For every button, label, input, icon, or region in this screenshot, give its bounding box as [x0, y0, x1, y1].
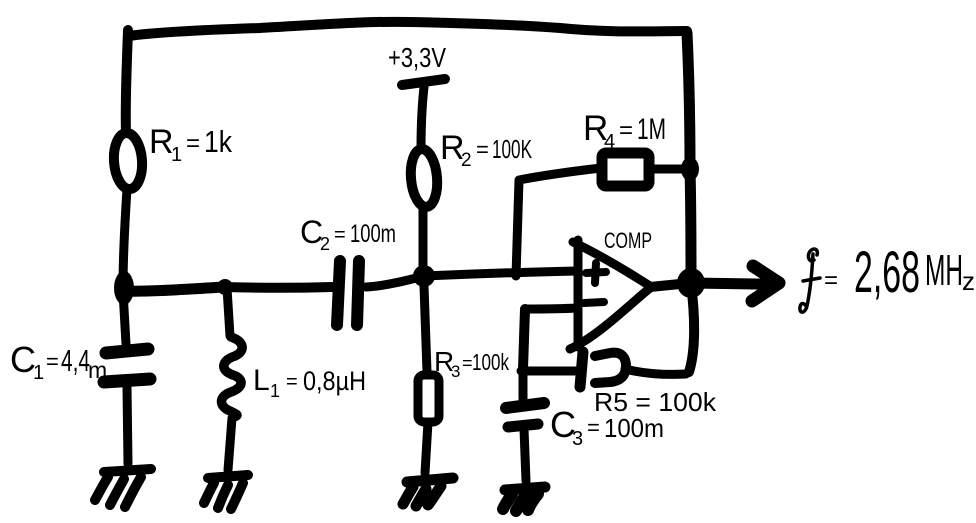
wire L1 bottom to ground: [228, 418, 232, 470]
label R2 value: [440, 129, 532, 171]
node D (output node): [677, 268, 705, 298]
resistor R1: [112, 132, 144, 190]
ground (C1): [95, 469, 151, 507]
wire inverting net vertical down: [523, 309, 525, 369]
node B (comparator + input net junction): [413, 265, 435, 287]
pin - (inverting input mark): [584, 302, 604, 303]
svg-text:COMP: COMP: [604, 228, 652, 253]
resistor R4: [602, 153, 649, 186]
wire inverting net to R5: [521, 367, 578, 376]
label L1 value: [253, 364, 366, 401]
svg-text:m: m: [88, 357, 107, 383]
wire left vertical lower (R1 to node A): [123, 189, 127, 288]
op-amp U1 comparator triangle: [570, 240, 650, 349]
svg-text:=: =: [186, 130, 200, 157]
wire node B to comparator plus input: [424, 271, 576, 276]
svg-text:1M: 1M: [637, 113, 666, 146]
wire right vertical (top corner to node C): [687, 33, 690, 168]
capacitor C3: [506, 403, 544, 427]
svg-text:=: =: [619, 117, 633, 144]
node A (tank node junction): [114, 271, 134, 305]
wire L1 junction to C2 left plate: [225, 282, 332, 293]
wire L1 top (junction down): [227, 288, 230, 336]
svg-text:1: 1: [270, 381, 280, 401]
svg-text:1k: 1k: [204, 124, 232, 159]
ground (L1): [204, 475, 248, 509]
pin + (non-inverting input mark): [586, 263, 606, 283]
wire C3 top: [519, 371, 528, 399]
wire comparator output to node D: [650, 284, 680, 287]
capacitor C2: [337, 261, 359, 325]
label COMP: [604, 228, 652, 253]
svg-text:100K: 100K: [492, 134, 532, 164]
svg-text:2,68: 2,68: [854, 240, 920, 305]
wire main node A to L1 junction: [122, 287, 224, 291]
ground (R3): [403, 478, 453, 506]
svg-text:2: 2: [320, 234, 330, 254]
wire output node down to R5 net: [689, 284, 694, 372]
svg-text:L: L: [253, 364, 270, 397]
wire supply bar to R2: [421, 87, 424, 149]
wire C3 bottom to ground: [524, 429, 526, 481]
wire R5 right to output column: [625, 369, 686, 374]
svg-text:0,8µH: 0,8µH: [303, 366, 366, 396]
svg-text:3: 3: [451, 362, 460, 381]
wire R4 left lead (down to + input net): [516, 168, 601, 276]
svg-text:4: 4: [604, 131, 615, 153]
svg-text:z: z: [962, 266, 975, 296]
wire output to arrow: [691, 283, 756, 284]
wire top feedback (output to R1 top): [129, 22, 687, 36]
output arrowhead: [752, 266, 779, 301]
label C1 value: [10, 339, 107, 384]
svg-text:3: 3: [572, 428, 583, 450]
svg-text:100m: 100m: [350, 220, 396, 248]
svg-text:1: 1: [171, 144, 182, 166]
resistor R2: [409, 148, 440, 208]
label f frequency script: [800, 249, 820, 312]
label C3 value: [550, 404, 664, 450]
svg-text:=: =: [286, 371, 298, 393]
resistor R3: [418, 375, 439, 422]
svg-text:2: 2: [461, 150, 472, 171]
wire node B down to R3: [424, 286, 427, 372]
label R4 value: [583, 109, 666, 153]
wire R3 bottom to ground: [425, 422, 428, 473]
ground (C3): [503, 487, 545, 511]
wire left vertical upper (corner to R1): [126, 30, 128, 133]
svg-text:=: =: [587, 415, 600, 440]
resistor R5: [580, 352, 626, 387]
label R3 value: [434, 346, 509, 381]
svg-text:=: =: [476, 137, 489, 162]
power rail bar +3.3V: [402, 79, 445, 85]
svg-text:4,4: 4,4: [61, 343, 90, 378]
wire R2 bottom to node B: [419, 207, 428, 267]
label R1 value: [149, 123, 232, 166]
label +3.3V supply: [388, 42, 446, 73]
wire right vertical (node C to output node): [690, 170, 691, 281]
label equals and value f = 2,68 MHz: [824, 240, 975, 305]
svg-text:=: =: [824, 267, 838, 294]
svg-text:1: 1: [33, 362, 44, 384]
capacitor C1: [104, 349, 150, 382]
svg-text:=: =: [46, 349, 59, 374]
wire C2 right plate to node B: [366, 277, 420, 287]
svg-text:=: =: [334, 224, 346, 246]
node C (R4 right / output column junction): [681, 157, 699, 181]
svg-text:MH: MH: [925, 246, 963, 295]
node L1 junction: [217, 279, 233, 295]
svg-text:100k: 100k: [472, 349, 509, 375]
label R5 value: [594, 387, 717, 417]
label C2 value: [300, 214, 396, 254]
svg-text:R: R: [149, 123, 174, 161]
wire R4 right lead to node C: [650, 165, 683, 174]
wire inverting input lead: [525, 308, 577, 309]
inductor L1: [221, 337, 242, 417]
svg-text:=: =: [462, 353, 473, 373]
wire C1 top (node A down): [123, 291, 126, 344]
svg-text:+3,3V: +3,3V: [388, 42, 446, 73]
svg-text:100m: 100m: [604, 413, 664, 443]
wire C1 bottom to ground: [127, 387, 128, 464]
